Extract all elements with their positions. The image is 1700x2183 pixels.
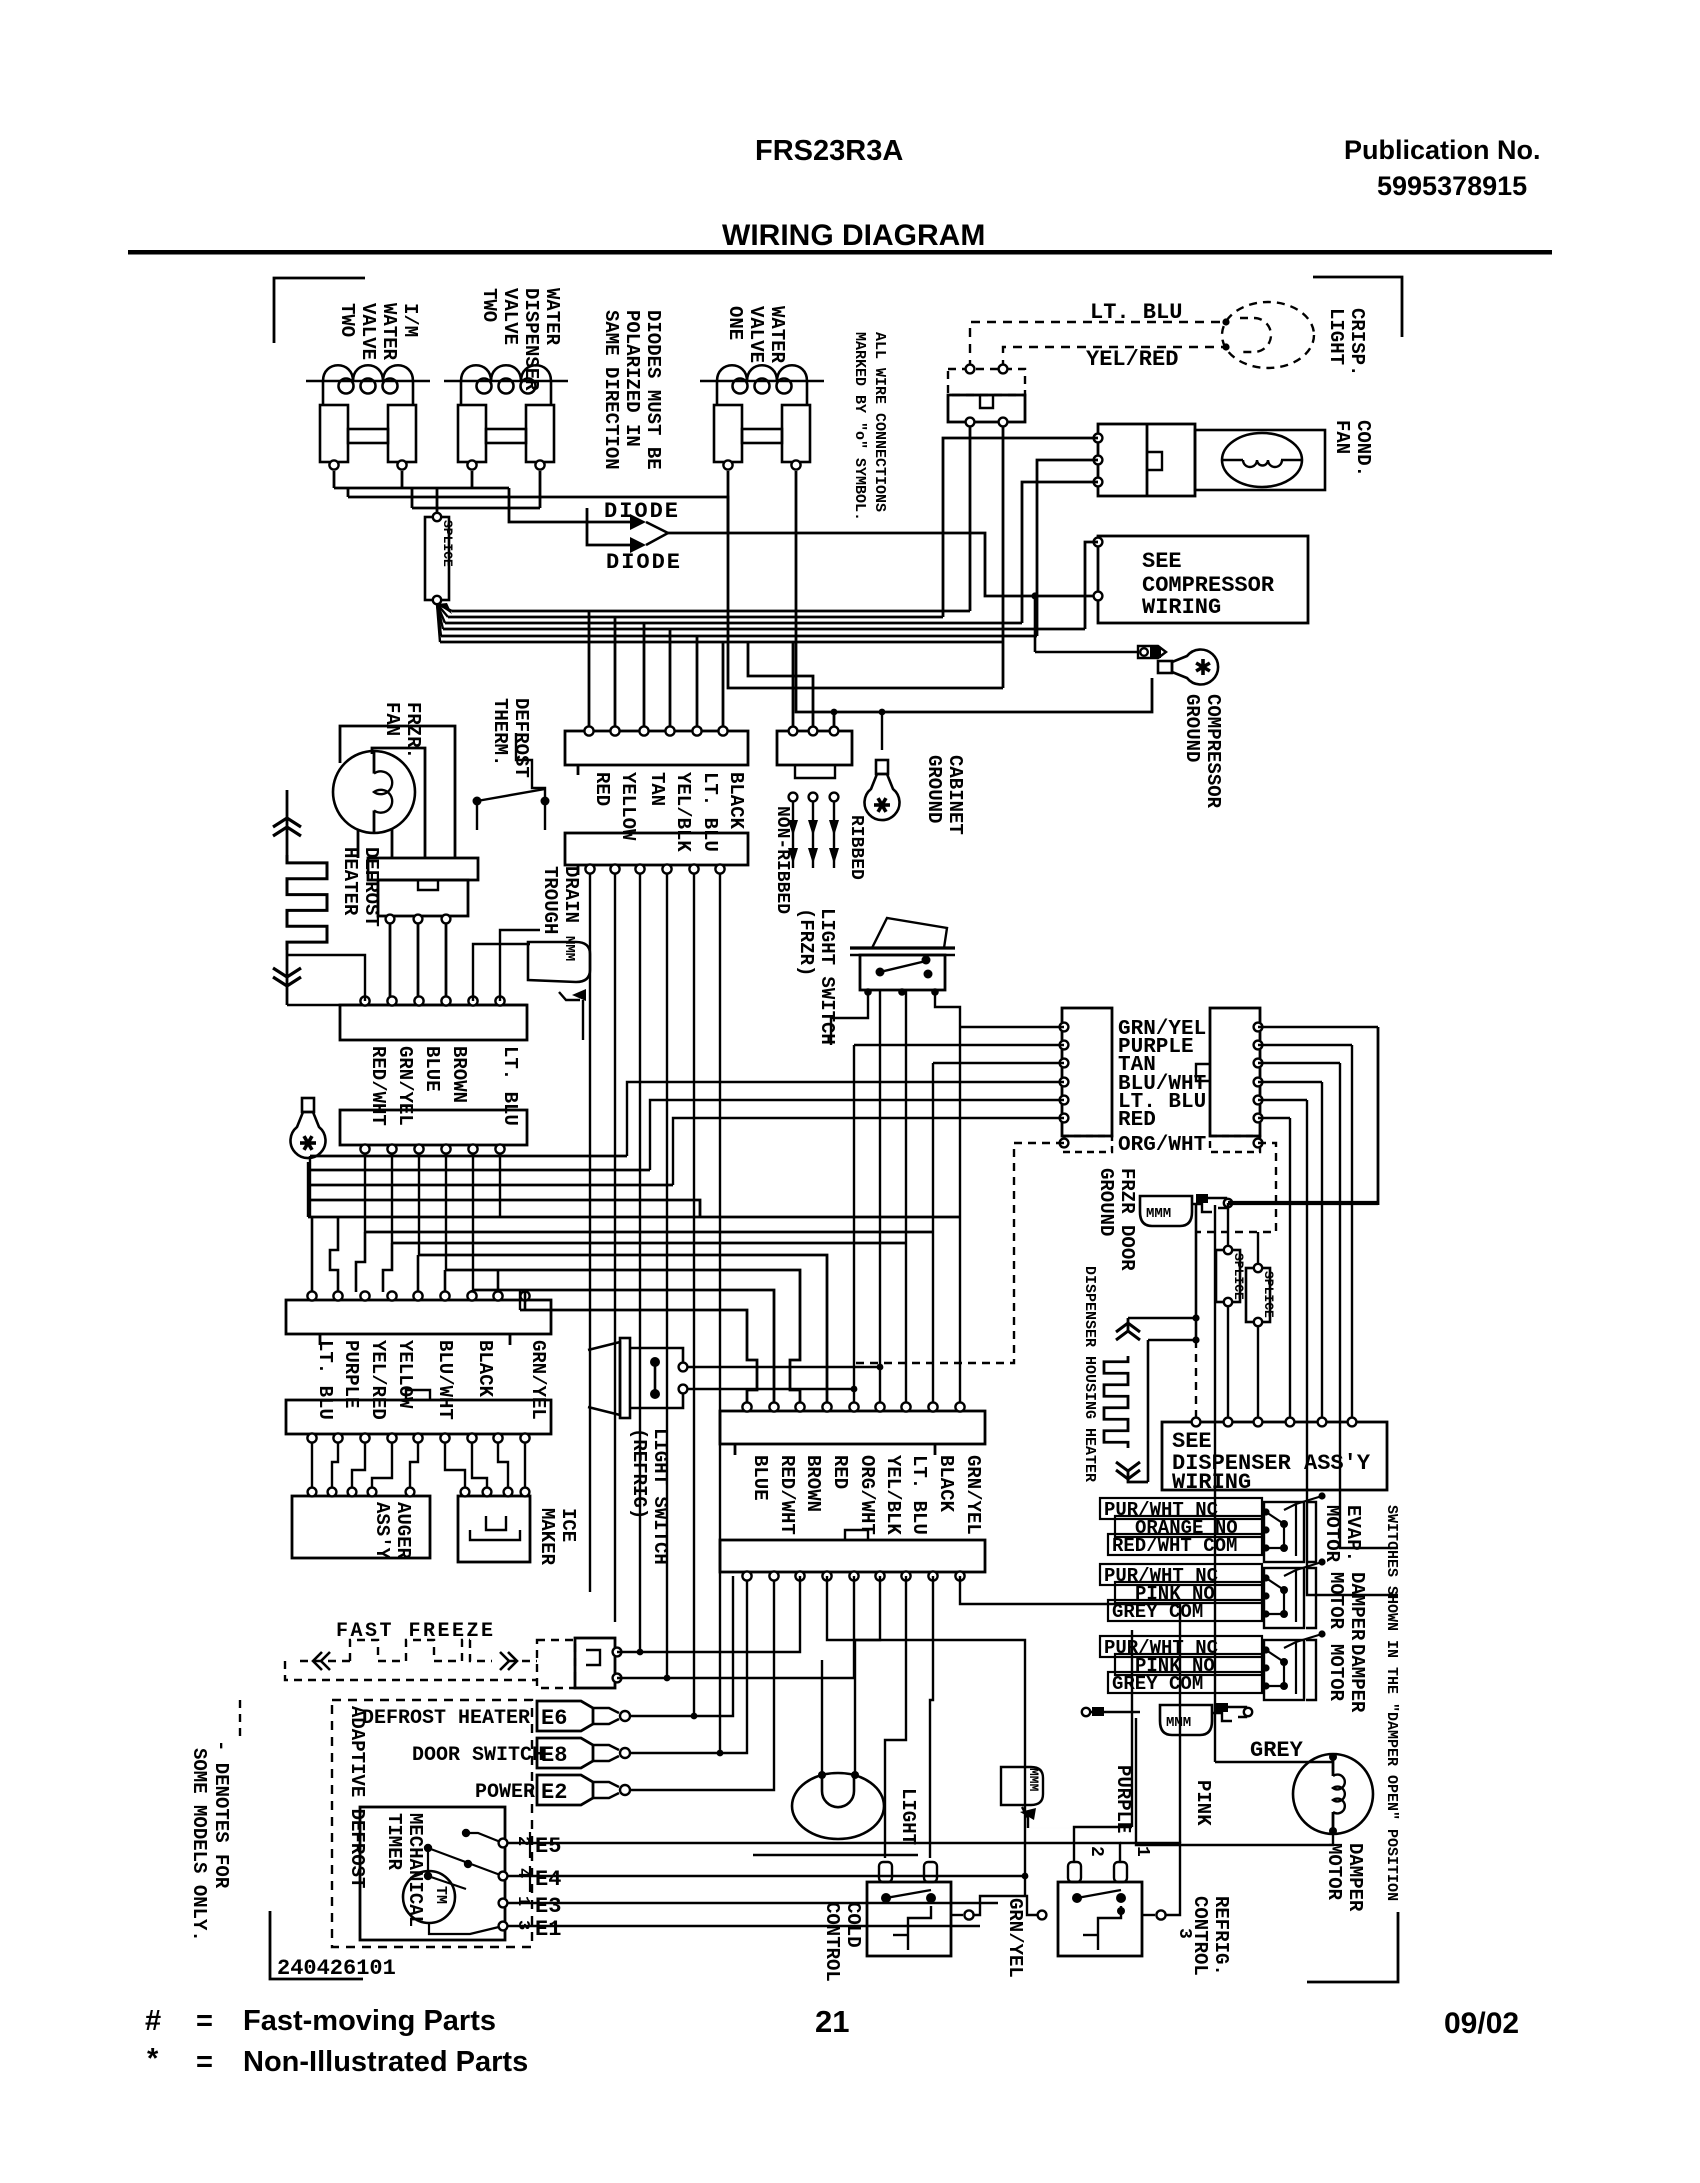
svg-text:LIGHT: LIGHT <box>1325 308 1347 365</box>
svg-text:COND.: COND. <box>1352 420 1374 477</box>
wire bundle upper horizontals <box>310 1155 627 1158</box>
wire pink vertical <box>1179 1604 1181 1843</box>
frzr door ground MMM <box>1140 1196 1192 1226</box>
wire E5 run <box>508 1843 1120 1862</box>
corner bracket top-left <box>274 278 365 343</box>
freezer light switch body <box>860 955 945 990</box>
freezer light switch rocker <box>850 946 955 949</box>
corner bracket bottom-right <box>1307 1912 1398 1982</box>
damper switch group 1 motor wire <box>1296 1496 1322 1504</box>
wire fast freeze pin2 <box>617 1576 854 1678</box>
svg-text:GROUND: GROUND <box>1095 1168 1117 1236</box>
legend dashed sample <box>239 1700 241 1742</box>
wires M2 pins down <box>827 1576 1025 1896</box>
light switch refrig body <box>630 1348 683 1362</box>
cold control box <box>867 1882 951 1956</box>
svg-text:1: 1 <box>1132 1846 1152 1857</box>
svg-text:Publication No.: Publication No. <box>1344 135 1541 165</box>
svg-text:RED: RED <box>591 772 613 806</box>
svg-text:YEL/RED: YEL/RED <box>367 1340 389 1420</box>
svg-text:TIMER: TIMER <box>383 1813 405 1871</box>
wire connector B pin2 feed <box>748 642 813 731</box>
svg-text:Fast-moving Parts: Fast-moving Parts <box>243 2005 496 2037</box>
svg-text:DAMPER: DAMPER <box>1346 1644 1368 1713</box>
wire diode output to compressor <box>668 533 1094 596</box>
svg-text:BLUE: BLUE <box>421 1046 443 1092</box>
svg-text:ONE: ONE <box>724 306 746 340</box>
svg-text:RED/WHT: RED/WHT <box>776 1455 798 1535</box>
splice A lower <box>1216 1250 1240 1302</box>
damper door heater MMM <box>1160 1705 1212 1735</box>
svg-text:WATER: WATER <box>541 288 563 346</box>
connector A strip <box>565 731 748 765</box>
damper switch group 3 rows <box>1100 1636 1262 1657</box>
drain trough lug <box>559 992 580 1000</box>
svg-text:ICE: ICE <box>557 1508 579 1542</box>
svg-text:GRN/YEL: GRN/YEL <box>1004 1898 1026 1978</box>
svg-text:GRN/YEL: GRN/YEL <box>394 1046 416 1126</box>
fast freeze dashed meander <box>300 1660 350 1662</box>
svg-text:- DENOTES FOR: - DENOTES FOR <box>210 1740 232 1889</box>
svg-text:LT. BLU: LT. BLU <box>499 1046 521 1126</box>
svg-text:ORG/WHT: ORG/WHT <box>1118 1134 1206 1157</box>
svg-text:SAME DIRECTION: SAME DIRECTION <box>600 310 622 470</box>
wire switch left terminal <box>831 992 868 1045</box>
wire bus y636 to relay pin2 drop <box>441 635 1037 638</box>
wire bus y617 to relay pin1 drop <box>448 616 943 619</box>
terminal E6 <box>537 1701 593 1731</box>
svg-text:E3: E3 <box>535 1894 561 1919</box>
svg-text:GRN/YEL: GRN/YEL <box>962 1455 984 1535</box>
wire PURPLE vertical <box>1351 1045 1353 1418</box>
wire valve one right to bus 712 <box>796 471 1152 712</box>
wire relay pin1 <box>943 438 1098 617</box>
wire connector B pin1 feed <box>792 642 795 731</box>
svg-text:BLU/WHT: BLU/WHT <box>434 1340 456 1420</box>
wire cold control link <box>753 1854 918 1856</box>
condenser fan relay box <box>1098 424 1195 496</box>
svg-text:WIRING: WIRING <box>1142 595 1221 620</box>
svg-text:YEL/RED: YEL/RED <box>1086 347 1178 372</box>
defrost heater meander <box>286 790 289 855</box>
svg-text:E8: E8 <box>541 1743 567 1768</box>
svg-text:POWER: POWER <box>475 1781 535 1804</box>
fast freeze arrow right <box>500 1652 509 1670</box>
svg-text:MOTOR: MOTOR <box>1325 1644 1347 1702</box>
corner bracket top-right <box>1313 277 1402 337</box>
svg-text:SWITCHES SHOWN IN THE "DAMPER: SWITCHES SHOWN IN THE "DAMPER OPEN" POSI… <box>1383 1505 1400 1901</box>
svg-text:BLACK: BLACK <box>935 1455 957 1513</box>
svg-text:#: # <box>145 2005 161 2037</box>
wires right 6-pin nested Ls <box>1258 1026 1378 1028</box>
dispenser heater arrow bottom <box>1116 1462 1140 1471</box>
svg-text:DIODES MUST BE: DIODES MUST BE <box>642 310 664 470</box>
svg-text:YEL/BLK: YEL/BLK <box>672 772 694 852</box>
svg-text:RED/WHT COM: RED/WHT COM <box>1112 1535 1237 1557</box>
svg-text:GREY: GREY <box>1250 1738 1304 1763</box>
wire splice B top <box>1257 1232 1259 1264</box>
wire arrow cluster at splice <box>437 603 452 614</box>
dispenser housing heater meander <box>1127 1318 1130 1332</box>
wire valve interconnect bus y488 <box>333 471 336 488</box>
svg-text:EVAP.: EVAP. <box>1342 1505 1364 1562</box>
svg-text:=: = <box>196 2046 213 2078</box>
svg-text:PURPLE: PURPLE <box>1112 1765 1134 1833</box>
svg-text:LT. BLU: LT. BLU <box>908 1455 930 1535</box>
svg-text:E2: E2 <box>541 1780 567 1805</box>
svg-text:240426101: 240426101 <box>277 1956 396 1981</box>
solenoid water valve one <box>700 365 824 462</box>
wire GRN/YEL vertical to grey bus <box>1377 1027 1380 1205</box>
terminal E2 <box>537 1775 593 1805</box>
svg-text:*: * <box>147 2043 159 2075</box>
connector D left 6-pin <box>1062 1008 1112 1136</box>
defrost thermostat contacts <box>473 797 482 806</box>
wire splice A top <box>1227 1203 1229 1246</box>
damper switch group 1 switch <box>1264 1502 1304 1562</box>
svg-text:MMM: MMM <box>1166 1715 1191 1731</box>
svg-text:DEFROST: DEFROST <box>510 698 532 778</box>
svg-text:E5: E5 <box>535 1834 561 1859</box>
auger assembly box <box>292 1496 430 1558</box>
wire connector B pin3 to y712 bus <box>833 712 836 731</box>
svg-text:WATER: WATER <box>766 306 788 364</box>
wire splice B bottom to dispenser box <box>1257 1326 1259 1418</box>
svg-text:RED: RED <box>1118 1109 1156 1132</box>
svg-text:THERM.: THERM. <box>489 698 511 766</box>
svg-text:YEL/BLK: YEL/BLK <box>882 1455 904 1535</box>
svg-text:1: 1 <box>513 1896 532 1906</box>
svg-text:DIODE: DIODE <box>604 499 680 524</box>
svg-text:5995378915: 5995378915 <box>1377 171 1527 201</box>
damper switch group 2 rows <box>1100 1564 1262 1585</box>
wire dashed ORG/WHT right side <box>1196 1143 1276 1232</box>
freezer fan motor <box>333 751 415 833</box>
corner bracket bottom-left <box>270 1911 363 1979</box>
wires into C3 pins from bundle <box>311 1217 314 1292</box>
fast freeze connector <box>537 1640 575 1688</box>
svg-text:COLD: COLD <box>842 1902 864 1948</box>
connector B 3-pin <box>777 731 852 765</box>
crisper light dashed lamp <box>1222 302 1314 368</box>
svg-text:DEFROST HEATER: DEFROST HEATER <box>362 1707 530 1730</box>
svg-text:Non-Illustrated Parts: Non-Illustrated Parts <box>243 2046 528 2078</box>
wire bus y611 to crisper drop <box>452 610 970 613</box>
wire splice A bottom to dispenser box <box>1227 1306 1229 1418</box>
connector D right 6-pin <box>1210 1008 1260 1136</box>
wire compressor pin1 <box>1085 542 1098 629</box>
connector M1 strip <box>720 1411 985 1444</box>
wire light bulb left <box>821 1660 823 1772</box>
wire refrig 2 up purple <box>1074 1827 1132 1862</box>
svg-text:BLACK: BLACK <box>474 1340 496 1398</box>
cold control right lug <box>951 1914 963 1916</box>
svg-text:FRS23R3A: FRS23R3A <box>755 135 903 167</box>
wire diode1 feed <box>509 488 630 522</box>
wire crisper switch left pin down <box>969 426 972 611</box>
damper switch group 3 switch <box>1264 1640 1304 1700</box>
fast freeze lower dashed rail <box>285 1661 537 1680</box>
freezer section ground <box>290 1098 325 1158</box>
defrost heater arrow top <box>273 827 301 836</box>
svg-text:GRN/YEL: GRN/YEL <box>527 1340 549 1420</box>
svg-text:DISPENSER: DISPENSER <box>520 288 542 391</box>
dispenser heater arrow top <box>1116 1331 1140 1340</box>
svg-text:SPLICE: SPLICE <box>1231 1253 1246 1300</box>
svg-text:REFRIG.: REFRIG. <box>1210 1896 1232 1976</box>
svg-text:RIBBED: RIBBED <box>846 815 866 880</box>
defrost thermostat step wire <box>516 733 545 797</box>
svg-text:21: 21 <box>815 2004 849 2039</box>
wire splice fan-out bundle <box>437 604 452 611</box>
see compressor wiring box <box>1098 536 1308 623</box>
svg-text:LIGHT SWITCH: LIGHT SWITCH <box>816 908 838 1045</box>
solenoid water valve I/M two <box>306 365 430 462</box>
svg-text:CABINET: CABINET <box>944 755 966 835</box>
svg-text:MOTOR: MOTOR <box>1325 1572 1347 1630</box>
wires freezer light switch terminals down <box>879 990 881 1407</box>
defrost heater arrow bottom <box>273 968 301 977</box>
svg-text:09/02: 09/02 <box>1444 2007 1519 2040</box>
drain trough cup <box>528 942 590 982</box>
svg-text:TWO: TWO <box>336 303 358 337</box>
svg-text:=: = <box>196 2005 213 2037</box>
refrig control box <box>1058 1882 1142 1956</box>
wire defrost heater bottom <box>287 1004 527 1006</box>
svg-text:2: 2 <box>1086 1846 1106 1857</box>
svg-text:TROUGH: TROUGH <box>539 866 561 934</box>
title underline rule <box>128 250 1552 255</box>
svg-text:PINK: PINK <box>1192 1780 1214 1826</box>
wire valve one left to bus 688 <box>728 471 1003 688</box>
svg-text:RED: RED <box>829 1455 851 1489</box>
svg-text:POLARIZED IN: POLARIZED IN <box>621 310 643 447</box>
see dispenser assy wiring box <box>1162 1422 1387 1490</box>
svg-text:TAN: TAN <box>646 772 668 806</box>
svg-text:MMM: MMM <box>1026 1768 1041 1792</box>
wire relay pin3 <box>1022 482 1098 623</box>
wire relay pin2 <box>1037 460 1098 636</box>
compressor ground star <box>1158 650 1218 685</box>
svg-text:LT. BLU: LT. BLU <box>699 772 721 852</box>
splice upper <box>425 517 449 600</box>
wire E3 run <box>508 1902 998 1904</box>
compressor ground lug <box>1035 651 1138 654</box>
connector A2 strip <box>565 833 748 865</box>
wire LT BLU vertical <box>1307 1100 1398 1595</box>
svg-text:AUGER: AUGER <box>392 1502 414 1560</box>
defrost timer stack <box>368 858 478 880</box>
wire splice feed <box>436 488 439 513</box>
svg-text:SPLICE: SPLICE <box>1261 1271 1276 1318</box>
svg-text:VALVE: VALVE <box>499 288 521 345</box>
svg-text:ADAPTIVE DEFROST: ADAPTIVE DEFROST <box>346 1706 368 1888</box>
wire crisper switch right pin down <box>1002 426 1005 688</box>
damper switch group 3 motor wire <box>1296 1634 1322 1642</box>
svg-text:SPLICE: SPLICE <box>440 520 455 567</box>
wire dashed LT. BLU to crisper light <box>970 322 1224 369</box>
svg-text:BROWN: BROWN <box>448 1046 470 1103</box>
wire E8 <box>629 1580 747 1753</box>
svg-text:GREY COM: GREY COM <box>1112 1673 1203 1695</box>
svg-text:DOOR SWITCH: DOOR SWITCH <box>412 1744 544 1767</box>
svg-text:ALL WIRE CONNECTIONS: ALL WIRE CONNECTIONS <box>871 332 888 512</box>
wire diode output to top bus <box>348 497 728 533</box>
adaptive defrost dashed box <box>332 1700 532 1947</box>
wire valve interconnect bus y508 <box>411 488 414 508</box>
wire fan to timer <box>357 829 360 858</box>
wire fast freeze pin1 <box>617 1576 800 1652</box>
svg-text:E4: E4 <box>535 1867 561 1892</box>
damper motor <box>1293 1754 1373 1834</box>
wire bus y629 to compressor pin drop <box>443 628 1085 631</box>
light switch refrig funnel <box>588 1342 620 1415</box>
wire grn/yel jog <box>973 1896 1037 1915</box>
wire RED vertical <box>1289 1118 1291 1418</box>
refrig control right lug <box>1142 1914 1155 1916</box>
connector C3 strip <box>286 1300 551 1334</box>
wire dispenser heater loop <box>1128 1317 1196 1320</box>
svg-text:PURPLE: PURPLE <box>340 1340 362 1408</box>
connector C2 strip <box>340 1110 527 1145</box>
svg-text:DIODE: DIODE <box>606 550 682 575</box>
svg-text:WIRING DIAGRAM: WIRING DIAGRAM <box>722 219 985 252</box>
svg-text:FAN: FAN <box>381 702 403 736</box>
svg-text:FAN: FAN <box>1331 420 1353 454</box>
svg-text:E6: E6 <box>541 1706 567 1731</box>
svg-text:MMM: MMM <box>561 936 577 961</box>
wires C1 left pins up <box>287 955 365 1001</box>
wire bundle from C2 pins <box>364 1153 366 1232</box>
wires A2 pins long verticals <box>589 873 591 1592</box>
diode D1 <box>630 514 646 530</box>
svg-text:WIRING: WIRING <box>1172 1470 1251 1495</box>
condenser fan frame <box>1195 430 1325 490</box>
wires C4 pins down to auger and ice maker <box>311 1442 313 1492</box>
wire to dispenser box dashed <box>1195 1340 1197 1418</box>
wire TAN vertical <box>1340 1063 1398 1548</box>
wire bus y623 to relay pin3 drop <box>445 622 1022 625</box>
svg-text:FRZR DOOR: FRZR DOOR <box>1116 1168 1138 1271</box>
wire damper mmm to left <box>1086 1711 1140 1714</box>
svg-text:NON-RIBBED: NON-RIBBED <box>772 806 792 914</box>
svg-text:VALVE: VALVE <box>357 303 379 360</box>
svg-text:MAKER: MAKER <box>536 1508 558 1566</box>
svg-text:FRZR.: FRZR. <box>402 702 424 759</box>
freezer fan wiring loop <box>340 726 455 858</box>
wire E1 run <box>508 1925 980 1927</box>
fast freeze arrow left <box>321 1652 330 1670</box>
svg-text:DAMPER: DAMPER <box>1346 1572 1368 1641</box>
wire damper motor bottom <box>1136 1718 1333 1845</box>
terminal E8 <box>537 1738 593 1768</box>
wire dashed YEL/RED to crisper light <box>1003 347 1224 369</box>
svg-text:LT. BLU: LT. BLU <box>314 1340 336 1420</box>
wire diode2 feed <box>587 508 630 545</box>
connector C4 strip <box>286 1400 551 1434</box>
svg-text:CRISP.: CRISP. <box>1346 308 1368 376</box>
svg-text:BROWN: BROWN <box>802 1455 824 1512</box>
cabinet ground symbol <box>865 760 900 820</box>
ice maker box <box>458 1496 530 1562</box>
refrigerator light lamp <box>792 1773 884 1839</box>
svg-text:YELLOW: YELLOW <box>617 772 639 841</box>
svg-text:ASS'Y: ASS'Y <box>371 1502 393 1560</box>
wire refrig 1 to 3 loop <box>1120 1843 1180 1915</box>
damper switch group 1 rows <box>1100 1498 1262 1519</box>
svg-text:MARKED BY "o" SYMBOL.: MARKED BY "o" SYMBOL. <box>851 332 868 521</box>
wire grey to damper motor <box>1215 1761 1333 1763</box>
wires timer terminals down <box>389 924 392 1001</box>
wire switch right terminal to GRN/YEL <box>935 992 960 1027</box>
svg-text:DAMPER: DAMPER <box>1344 1843 1366 1912</box>
connector B arrows non-ribbed <box>792 801 794 868</box>
svg-text:LIGHT: LIGHT <box>897 1788 919 1845</box>
svg-text:CONTROL: CONTROL <box>1189 1896 1211 1976</box>
svg-text:SEE: SEE <box>1142 549 1182 574</box>
damper switch group 2 switch <box>1264 1568 1304 1628</box>
wire E4 run <box>508 1875 1025 1877</box>
wire light switch refrig pins right <box>687 1366 880 1368</box>
svg-text:TWO: TWO <box>478 288 500 322</box>
condenser fan motor <box>1222 433 1302 487</box>
svg-text:CONTROL: CONTROL <box>821 1902 843 1982</box>
mechanical timer box <box>360 1807 505 1940</box>
cold control mmm capillary <box>1001 1767 1043 1805</box>
diode D2 <box>630 537 646 553</box>
svg-text:BLACK: BLACK <box>725 772 747 830</box>
svg-text:MOTOR: MOTOR <box>1321 1505 1343 1563</box>
wire dashed ORG/WHT <box>852 1143 1064 1363</box>
svg-text:MOTOR: MOTOR <box>1323 1843 1345 1901</box>
solenoid water dispenser valve two <box>444 365 568 462</box>
wire capillary down <box>1028 1827 1136 1829</box>
svg-text:SOME MODELS ONLY.: SOME MODELS ONLY. <box>188 1748 210 1942</box>
svg-text:DISPENSER HOUSING HEATER: DISPENSER HOUSING HEATER <box>1081 1266 1098 1482</box>
svg-text:RED/WHT: RED/WHT <box>367 1046 389 1126</box>
wire drops from bus to connector A pins <box>588 611 591 731</box>
svg-text:GROUND: GROUND <box>923 755 945 823</box>
wire E2 <box>629 1580 774 1790</box>
wires left 6-pin rows to left <box>960 1026 1064 1028</box>
wire E6 <box>629 1576 733 1716</box>
connector C1 strip <box>340 1005 527 1040</box>
svg-text:LT. BLU: LT. BLU <box>1090 300 1182 325</box>
svg-text:(FRZR): (FRZR) <box>795 908 817 976</box>
connector M2 strip <box>720 1540 985 1572</box>
splice B lower <box>1246 1268 1270 1322</box>
svg-text:WATER: WATER <box>378 303 400 361</box>
svg-text:GROUND: GROUND <box>1181 694 1203 762</box>
timer motor TM <box>403 1871 455 1923</box>
svg-text:I/M: I/M <box>399 303 421 337</box>
svg-text:BLUE: BLUE <box>749 1455 771 1501</box>
svg-text:VALVE: VALVE <box>745 306 767 363</box>
wire grey heavy bus <box>1228 1201 1378 1205</box>
svg-text:COMPRESSOR: COMPRESSOR <box>1202 694 1224 809</box>
svg-text:MMM: MMM <box>1146 1206 1171 1222</box>
damper switch group 2 motor wire <box>1296 1562 1322 1570</box>
svg-text:E1: E1 <box>535 1917 561 1942</box>
wire BLU/WHT vertical <box>1321 1082 1323 1418</box>
svg-text:TM: TM <box>432 1886 449 1904</box>
svg-text:ORG/WHT: ORG/WHT <box>856 1455 878 1535</box>
wire freezer ground tail <box>307 1162 309 1217</box>
wire long bundle horizontals <box>308 1216 960 1219</box>
crisper door switch <box>948 369 1025 395</box>
timer contacts <box>462 1829 470 1837</box>
wire bus y642 to crisper right drop <box>440 641 1003 644</box>
